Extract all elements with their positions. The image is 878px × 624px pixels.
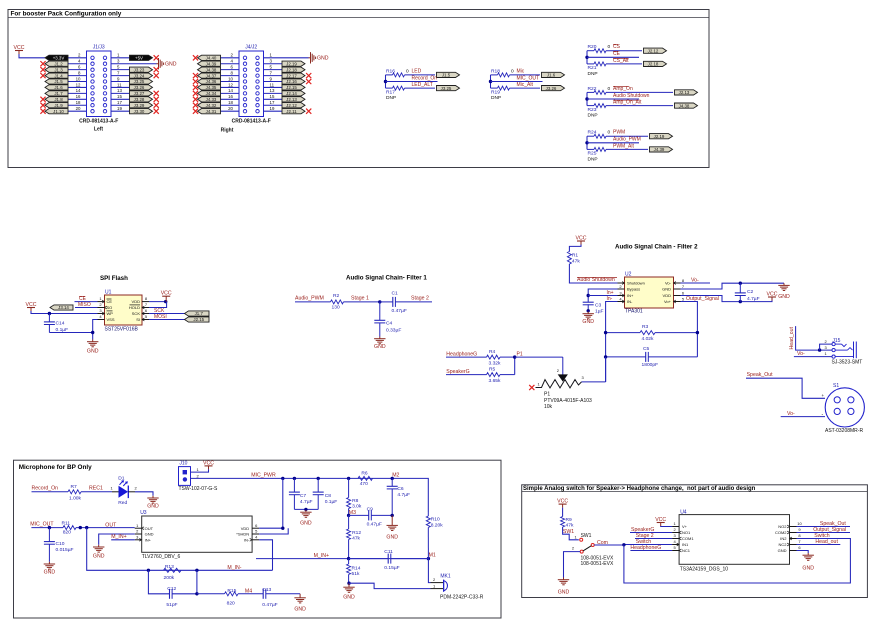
connector J1/J3 pin numbers [76,53,123,111]
svg-text:470: 470 [360,481,368,487]
no-connect X J1.4 [40,73,45,78]
net label M_IN- (rail) [227,565,241,571]
net flag J3.25 [130,79,153,84]
svg-text:IN-: IN- [244,537,250,542]
svg-text:DNP: DNP [588,156,598,162]
svg-text:4.7µF: 4.7µF [397,492,410,498]
wire J1 row 4 left [66,81,87,83]
power VCC U2 VDD [767,292,778,301]
svg-text:TLV2760_DBV_6: TLV2760_DBV_6 [142,554,181,560]
wire Com to IN1 [594,544,672,547]
svg-text:MIC_PWR: MIC_PWR [251,472,276,478]
SW1 pin 2 number [572,546,575,551]
wire CE wire [75,301,98,303]
U4 right pin numbers [797,521,802,550]
svg-text:DNP: DNP [386,95,396,101]
net label Switch (U4 left) [636,539,651,545]
svg-text:14: 14 [76,88,81,93]
value 130 (R2) [332,305,340,311]
svg-text:4.02k: 4.02k [642,336,655,342]
net label HeadphoneG (U4) [630,545,661,551]
svg-text:VSS: VSS [107,317,115,322]
net label Record_On (mic) [32,486,59,492]
svg-text:R10: R10 [431,516,440,522]
power VCC U4 V+ [655,517,666,526]
svg-text:R7: R7 [71,484,78,490]
svg-text:0.47µF: 0.47µF [367,522,382,528]
svg-text:J4.39: J4.39 [654,147,665,152]
no-connect X J3.23 [154,67,159,72]
net flag J1.2 [45,61,68,66]
U3 left pin names [145,526,154,543]
designator C13 [262,587,271,593]
svg-text:J1.7: J1.7 [54,91,63,96]
capacitor C6 [387,478,398,515]
svg-text:CE: CE [107,299,113,304]
svg-text:3.65k: 3.65k [489,378,502,384]
U4 pin 3 stub (COM1) [672,537,681,540]
value 0 (R20) [608,44,611,50]
svg-text:C2: C2 [747,289,754,295]
junction R12/R14 [347,557,350,560]
svg-text:R1: R1 [572,252,579,258]
net label Vo- (J15) [797,351,805,357]
net flag J4.39 [650,147,673,152]
value 4.7uF (C6) [397,492,410,498]
junction C12 right [195,569,198,572]
wire Record_On stub [386,81,438,83]
DNP note (R17) [386,95,396,101]
capacitor C11 [349,554,429,564]
no-connect X J3.29 [154,103,159,108]
wire J1 row 7 left [66,98,87,100]
svg-text:+: + [822,393,825,398]
junction C12 left [147,569,150,572]
svg-text:C12: C12 [167,586,176,592]
svg-text:J2.14: J2.14 [286,91,297,96]
designator C7 [300,493,307,499]
value 4.7uF (C7) [300,499,313,505]
net flag J1.4 [45,73,68,78]
svg-text:TPA301: TPA301 [625,309,643,315]
net flag J2.19 [282,61,305,66]
part number CRD-081413-A-F (left) [79,119,118,125]
svg-text:+5V: +5V [135,56,143,61]
designator R17 [386,89,395,95]
net label In- [607,296,613,302]
U2 pin 1 stub (Shutdown) [618,282,625,285]
IC U3 body (TLV2760) [142,516,252,552]
wire IN- down [259,540,272,571]
net label Output_Signal (U2) [686,296,719,302]
resistor R13 [164,568,182,572]
U4 pin 8 stub (IN2) [790,537,797,540]
net flag J3.14 [50,305,73,310]
value 0.015uF (C10) [56,547,74,553]
designator R23 [588,107,597,113]
net label M4 [245,588,252,594]
svg-text:PTV09A-4015F-A103: PTV09A-4015F-A103 [544,398,592,404]
wire J4 row 0 left [221,57,240,59]
wire pot pin3 up [605,357,607,382]
net flag J1.6 [45,85,68,90]
svg-text:U2: U2 [625,272,632,278]
svg-text:J1.6: J1.6 [54,85,63,90]
wire J4 row 9 right [264,110,284,112]
svg-text:PWM: PWM [613,130,625,136]
wire to MK1 pin1 [349,583,431,588]
ground SW1 GND [558,578,570,596]
wire SpeakerG wire [630,532,672,534]
wire CE stub [587,56,639,58]
svg-text:DNP: DNP [588,113,598,119]
value 0.33uF (C4) [386,328,401,334]
speaker S1 (AST-03208MR-R) [825,388,864,427]
wire J4 row 4 left [221,81,240,83]
no-connect X J3.27 [154,91,159,96]
value 820 (R15) [227,600,235,606]
pot pin 1 number [538,381,541,386]
svg-text:Record_On: Record_On [32,486,59,492]
junction J15 node [818,348,821,351]
designator SW1 [581,533,592,539]
svg-text:15: 15 [270,94,275,99]
wire Vo- wire [681,282,711,284]
svg-text:R11: R11 [62,520,71,526]
designator R19 [491,89,500,95]
svg-text:51k: 51k [352,571,360,577]
svg-text:M_IN-: M_IN- [227,565,241,571]
svg-text:Audio_PWM: Audio_PWM [613,137,641,143]
value 0.47uF (C1) [392,308,407,314]
net label MOSI [154,314,167,320]
U2 right pin names [662,281,672,305]
svg-text:Bypass: Bypass [627,287,640,292]
svg-text:J2.15: J2.15 [286,85,297,90]
svg-text:R23: R23 [588,107,597,113]
svg-text:C13: C13 [262,587,271,593]
U3 left pin numbers [136,523,139,540]
svg-text:0: 0 [608,130,611,136]
value 0 (R16) [406,68,409,74]
svg-text:TSW-102-07-G-S: TSW-102-07-G-S [179,486,218,492]
resistor R17 [386,86,436,90]
net label M_IN+ (rail) [314,553,329,559]
speaker + terminal [822,393,825,398]
MK1 pin stubs [431,583,444,589]
value 3.65k (R5) [489,378,502,384]
U3 pin 6 stub (VDD) [252,527,259,529]
resistor R3 [606,331,698,335]
designator C5 [643,346,650,352]
svg-text:GND: GND [44,569,56,575]
no-connect X +5V [154,55,159,60]
svg-text:M_IN+: M_IN+ [111,534,126,540]
U1 pin 4 stub (VSS) [98,319,105,321]
designator R10 [431,516,440,522]
wire speaker - wire [781,416,825,418]
svg-text:J2.18: J2.18 [286,67,297,72]
svg-text:J2.12: J2.12 [648,48,659,53]
svg-text:19: 19 [117,106,122,111]
svg-text:P1: P1 [544,391,550,397]
wire VCC to V+ [661,525,672,528]
svg-text:C11: C11 [384,549,393,555]
designator J10 [179,460,187,466]
svg-text:3.0k: 3.0k [352,503,362,509]
net label SCK [154,308,165,314]
U1 pin 5 stub (SI) [142,318,149,321]
resistor R2 [295,300,380,304]
net flag J1.7 [45,91,68,96]
wire Speak_Out stub [797,526,851,528]
svg-text:*SHDN: *SHDN [236,532,249,537]
net label OUT (U3) [105,522,117,528]
wire J1 row 0 left [66,57,87,59]
U1 right pin names [129,299,140,322]
net flag J4.33 [198,97,221,102]
U2 pin 5 stub (Vo+) [674,300,681,303]
svg-text:Vo-: Vo- [665,281,672,286]
svg-text:NO1: NO1 [682,530,691,535]
wire SHDN jog [259,528,288,534]
designator C3 [595,302,602,308]
U4 pin 2 stub (NO1) [672,531,681,534]
no-connect X J2.11 [306,109,311,114]
resistor R9 [561,517,565,528]
power VCC J10 [203,460,214,469]
svg-text:R19: R19 [491,89,500,95]
value 0.1uF (C14) [56,327,69,333]
svg-text:J3.26: J3.26 [134,85,145,90]
no-connect X J4.36 [193,79,198,84]
svg-text:Simple Analog switch for Speak: Simple Analog switch for Speaker-> Headp… [523,486,756,492]
value 1.00k (R7) [69,495,82,501]
svg-text:VDD: VDD [663,293,672,298]
wire J1 pin3 to GND [111,63,157,65]
net label MIC_OUT (mic box) [30,521,54,527]
part number CRD-081413-A-F (right) [232,119,271,125]
designator R9 [566,517,573,523]
capacitor C14 [44,314,55,333]
svg-text:SO: SO [107,305,113,310]
resistor R18 [491,73,541,77]
svg-text:17: 17 [117,100,122,105]
designator C11 [384,549,393,555]
power VCC U1 right [161,291,172,300]
wire J1 row 6 right [111,92,131,94]
svg-text:J3.25: J3.25 [134,79,145,84]
value 3.0k (R8) [352,503,362,509]
svg-text:NC2: NC2 [778,542,787,547]
svg-text:Microphone for BP Only: Microphone for BP Only [19,464,92,471]
wire VDD to VCC [149,301,166,303]
wire M_IN+ stub [111,539,135,541]
U2 pin 2 stub (Bypass) [618,288,625,290]
resistor R6 [358,476,373,480]
connector J4/J2 body [239,51,264,117]
junction R3 right [696,331,699,334]
wire Switch loop [624,539,851,584]
svg-text:R14: R14 [352,565,361,571]
svg-text:DNP: DNP [588,71,598,77]
value 470 (R6) [360,481,368,487]
svg-text:C6: C6 [397,486,404,492]
svg-text:1µF: 1µF [595,309,604,315]
resistor R4 [446,355,515,359]
svg-text:J3.27: J3.27 [134,91,145,96]
svg-text:MIC_OUT: MIC_OUT [30,521,54,527]
U2 right pin numbers [682,278,685,302]
wire J4 pin1 to GND [264,57,309,59]
svg-text:SJ-3523-SMT: SJ-3523-SMT [832,359,863,365]
resistor R25 [587,147,648,151]
microphone MK1 [444,580,448,592]
net label Head_out (vertical) [789,326,795,349]
svg-text:Mic_Alt: Mic_Alt [517,82,534,88]
svg-text:J2.12: J2.12 [286,103,297,108]
capacitor C7 [289,478,300,509]
value 0.47uF (C13) [262,602,277,608]
svg-text:R5: R5 [489,366,496,372]
value 0 (R22) [608,86,611,92]
svg-text:10k: 10k [544,404,553,410]
net label PWM [613,130,625,136]
svg-text:J2.18: J2.18 [648,62,659,67]
net label CE [613,51,621,57]
svg-text:Vo+: Vo+ [664,299,672,304]
value 4.7uF (C2) [747,296,760,302]
svg-text:J2.13: J2.13 [286,97,297,102]
connector J1/J3 pins [91,56,107,113]
svg-text:130: 130 [332,305,340,311]
wire J1 row 8 left [66,104,87,106]
svg-text:J15: J15 [832,338,840,344]
junction C3 bottom [587,309,590,312]
designator U2 [625,272,632,278]
wire J1 row 3 right [111,75,131,77]
wire Bypass jog [588,289,617,302]
designator P1 [544,391,550,397]
U2 pin 4 stub (IN-) [618,300,625,303]
svg-text:SpeakerG: SpeakerG [446,369,469,375]
wire J1 row 9 right [111,110,131,112]
value 0 (R18) [511,68,514,74]
resistor R5 [446,373,515,377]
net flag J2.15 [282,85,305,90]
no-connect X pot pin1 [529,385,534,390]
designator R22 [588,86,597,92]
junction VSS/C14 [91,331,94,334]
IC U2 body (TPA301) [625,277,674,308]
net flag J1.8 [45,97,68,102]
MK1 pin numbers [433,577,436,588]
svg-text:R12: R12 [352,530,361,536]
designator R11 [62,520,71,526]
net flag J4.32 [198,103,221,108]
svg-text:J2.16: J2.16 [286,79,297,84]
svg-text:12: 12 [76,82,81,87]
value 51pF (C12) [166,602,177,608]
net label Audio_PWM [295,296,324,302]
power VCC U1 left [26,302,37,311]
net label Output_Signal (U4) [813,527,846,533]
wire IN- down [606,302,618,382]
svg-text:J4/J2: J4/J2 [245,45,257,51]
designator R7 [71,484,78,490]
wire MOSI wire [149,319,185,321]
U2 pin 7 stub (GND) [674,288,681,290]
wire J1 row 0 right [111,57,131,59]
svg-text:IN+: IN+ [145,537,152,542]
junction VDD/HOLD [164,300,167,303]
svg-text:Audio Signal Chain- Filter 1: Audio Signal Chain- Filter 1 [346,275,427,282]
svg-text:MIC_OUT: MIC_OUT [517,75,540,81]
net flag +5V [130,55,153,60]
U3 pin 4 stub (IN-) [250,538,259,541]
U3 pin 5 stub (SHDN) [252,533,259,535]
no-connect X J4.34 [193,91,198,96]
junction C5 left [604,355,607,358]
no-connect X J4.40 [193,55,198,60]
label Left [94,127,104,133]
wire VCC stem to VDD rail [165,300,167,302]
designator R13 [165,564,174,570]
svg-text:0.33µF: 0.33µF [386,328,401,334]
junction R8 tap [347,477,350,480]
value 4.02k (R3) [642,336,655,342]
pot pin 3 number [582,375,585,380]
svg-text:J1.10: J1.10 [53,109,64,114]
net label LED_ALT [412,82,433,88]
designator R1 [572,252,579,258]
part number TS3A24159_DGS_10 [680,567,729,573]
wire R9 to SW1 pin1 [563,527,579,540]
svg-text:14: 14 [228,88,233,93]
wire R5 up to node [514,357,516,375]
designator R6 [361,471,368,477]
power VCC SW1 [557,499,568,508]
ground GND at J1 pin3 [157,58,177,69]
value 47k (R1) [572,258,580,264]
svg-text:51pF: 51pF [166,602,177,608]
net label M1 [429,553,436,559]
svg-text:Stage 2: Stage 2 [411,296,429,302]
net flag J4.36 [198,79,221,84]
svg-text:J1.7: J1.7 [195,311,204,316]
resistor R22 [587,90,673,94]
svg-text:3.32k: 3.32k [489,361,502,367]
designator C4 [386,321,393,327]
wire Stage 2 wire [635,538,672,540]
DNP note (R25) [588,156,598,162]
title For booster Pack Configuration only [11,11,122,18]
no-connect X J1.2 [40,61,45,66]
svg-text:GND: GND [386,534,398,540]
net flag J2.11 [282,109,305,114]
resistor R16 [386,73,436,77]
value 0 (R24) [608,130,611,136]
IC U1 body (SST25VF016B) [105,295,143,325]
wire C12 up right [196,570,198,594]
wire J1 row 2 right [111,69,131,71]
designator R5 [489,366,496,372]
junction C8 tap [317,477,320,480]
J15 pin numbers [825,339,828,356]
svg-text:C9: C9 [367,506,374,512]
svg-text:47k: 47k [352,535,360,541]
svg-text:U3: U3 [140,510,147,516]
